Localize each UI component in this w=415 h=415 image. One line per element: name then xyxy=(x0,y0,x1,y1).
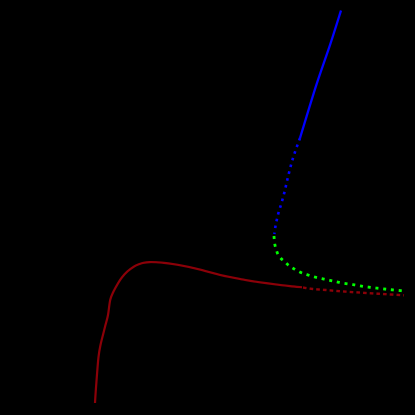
green dotted curve xyxy=(274,236,405,291)
dark red dotted continuation xyxy=(303,288,404,296)
dark red solid curve xyxy=(95,262,302,403)
blue solid line xyxy=(300,11,341,139)
blue dotted segment xyxy=(274,138,300,234)
